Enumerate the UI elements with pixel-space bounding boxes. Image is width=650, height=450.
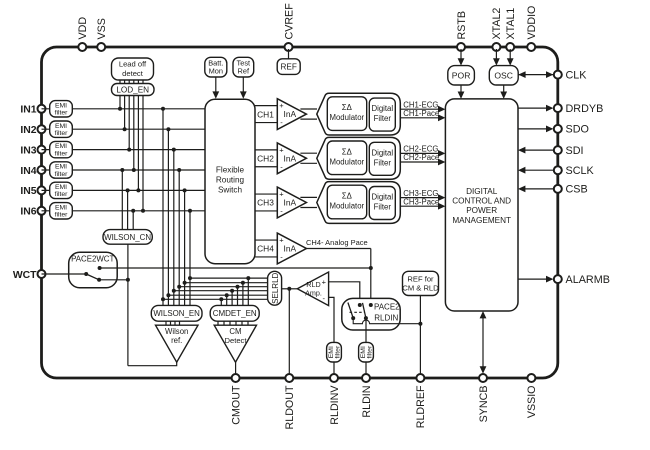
- svg-text:ΣΔ: ΣΔ: [342, 192, 352, 201]
- wire PACE2WCT upper to pace node: [100, 267, 371, 269]
- wire bus line 3: [179, 286, 267, 288]
- wire bus line 6: [163, 298, 268, 300]
- wire DRDYB: [518, 105, 553, 112]
- svg-text:VSSIO: VSSIO: [526, 386, 538, 419]
- pin VDDIO: [526, 6, 538, 51]
- svg-text:EMI: EMI: [55, 143, 67, 150]
- svg-text:CH1: CH1: [257, 109, 274, 119]
- wires lead off detect to LOD_EN: [120, 80, 143, 84]
- pin CVREF: [283, 3, 295, 51]
- wire column IN6 to WILSON_EN: [188, 209, 192, 306]
- svg-text:LOD_EN: LOD_EN: [116, 86, 149, 95]
- svg-text:Ref: Ref: [238, 66, 250, 75]
- svg-text:DIGITAL: DIGITAL: [466, 187, 498, 196]
- svg-text:ΣΔ: ΣΔ: [342, 147, 352, 156]
- EMI filter IN4: [50, 162, 73, 178]
- digital control and power management block: [445, 99, 518, 311]
- sigma-delta group CH3 outer: [317, 182, 401, 224]
- wires WILSON_EN to wilson ref: [166, 321, 180, 325]
- wire CMDET stub 2: [225, 293, 229, 305]
- digital filter CH1: [369, 98, 395, 131]
- pin RSTB: [456, 11, 468, 51]
- Test Ref block: [233, 57, 254, 77]
- svg-text:RLDREF: RLDREF: [415, 385, 427, 428]
- WILSON_EN block: [151, 305, 202, 321]
- LOD_EN block: [112, 84, 155, 96]
- pin VDD: [77, 17, 89, 51]
- svg-text:filter: filter: [55, 130, 69, 137]
- EMI filter IN5: [50, 182, 73, 198]
- CMDET_EN block: [210, 305, 259, 321]
- svg-text:Mon: Mon: [209, 66, 223, 75]
- wire XTAL2 to OSC: [493, 49, 500, 66]
- wire LOD column 5: [136, 96, 140, 193]
- svg-text:RSTB: RSTB: [456, 11, 468, 40]
- svg-text:IN3: IN3: [20, 145, 36, 156]
- svg-text:VSS: VSS: [96, 18, 108, 39]
- svg-text:Filter: Filter: [374, 158, 392, 167]
- wire CH3-Pace: [400, 197, 445, 209]
- sigma-delta group CH1 outer: [317, 93, 401, 135]
- svg-text:EMI: EMI: [55, 123, 67, 130]
- PACE2WCT block: [69, 252, 118, 287]
- svg-text:WILSON_CN: WILSON_CN: [104, 233, 151, 242]
- wire RLDOUT: [288, 289, 290, 375]
- op-amp InA CH3: [277, 187, 306, 218]
- svg-text:EMI: EMI: [55, 204, 67, 211]
- pin VSS: [96, 18, 108, 51]
- svg-text:CH3-Pace: CH3-Pace: [403, 197, 439, 206]
- EMI filter IN3: [50, 141, 73, 157]
- pin SDO: [554, 124, 589, 136]
- wires CMDET_EN to CM detect: [218, 321, 248, 325]
- svg-text:RLDIN: RLDIN: [361, 386, 373, 418]
- svg-text:CSB: CSB: [566, 184, 588, 196]
- wire IN1 row: [42, 108, 206, 110]
- svg-text:Switch: Switch: [218, 186, 243, 195]
- svg-text:SDO: SDO: [566, 124, 589, 136]
- svg-text:DRDYB: DRDYB: [566, 103, 604, 115]
- chip body outline: [42, 47, 558, 378]
- CH2 label: [257, 154, 274, 164]
- CH1 label: [257, 109, 274, 119]
- wire CH3 input/output pair: [255, 194, 317, 211]
- svg-text:Modulator: Modulator: [329, 113, 364, 122]
- wire XTAL1 to OSC: [507, 49, 514, 66]
- wire column IN5 to WILSON_EN: [183, 188, 187, 305]
- wire LOD column 3: [127, 96, 131, 152]
- svg-text:XTAL1: XTAL1: [505, 8, 517, 40]
- wire IN4 row: [42, 169, 206, 171]
- wire column IN1 to WILSON_EN: [161, 107, 165, 306]
- svg-text:PACE2WCT: PACE2WCT: [71, 255, 114, 264]
- svg-text:InA: InA: [284, 198, 297, 208]
- wire Test Ref to switch: [240, 77, 247, 99]
- wire CSB: [518, 186, 553, 193]
- svg-text:Routing: Routing: [216, 176, 245, 185]
- EMI filter IN6: [50, 203, 73, 219]
- EMI filter IN2: [50, 121, 73, 137]
- svg-text:RLDINV: RLDINV: [329, 385, 341, 425]
- WILSON_CN block: [103, 230, 152, 245]
- wire CMDET stub 4: [236, 285, 240, 306]
- svg-text:CH4: CH4: [257, 244, 274, 254]
- pin ALARMB: [554, 274, 610, 286]
- wire CH2 input/output pair: [255, 150, 317, 167]
- wire WILSON_CN output: [126, 244, 130, 366]
- svg-text:filter: filter: [55, 191, 69, 198]
- svg-text:CH3: CH3: [257, 198, 274, 208]
- pin IN1: [20, 105, 45, 116]
- wire RSTB to POR: [458, 49, 465, 66]
- svg-text:Wilson: Wilson: [165, 327, 188, 336]
- svg-text:Modulator: Modulator: [329, 157, 364, 166]
- pin IN5: [20, 186, 45, 197]
- svg-text:filter: filter: [55, 212, 69, 219]
- wire IN6 row: [42, 210, 206, 212]
- pin VSSIO: [526, 374, 538, 418]
- wire column IN3 to WILSON_EN: [172, 148, 176, 306]
- sigma-delta modulator CH3: [327, 185, 366, 219]
- pin WCT: [13, 270, 46, 281]
- svg-text:Filter: Filter: [374, 114, 392, 123]
- wire CH2-ECG: [400, 145, 445, 157]
- wire bus line 1: [190, 277, 268, 279]
- wire POR to DCPM: [458, 85, 465, 99]
- svg-text:CH1-Pace: CH1-Pace: [403, 109, 439, 118]
- pin SDI: [554, 145, 584, 157]
- svg-text:Digital: Digital: [371, 104, 393, 113]
- wire CMDET stub 5: [241, 281, 245, 306]
- svg-text:CVREF: CVREF: [283, 3, 295, 40]
- wire SDI: [518, 147, 553, 154]
- svg-text:POR: POR: [452, 71, 471, 81]
- svg-text:IN4: IN4: [20, 166, 36, 177]
- Batt Mon block: [205, 57, 227, 77]
- svg-text:IN6: IN6: [20, 207, 36, 218]
- wire column IN2 to WILSON_EN: [166, 127, 170, 305]
- wire bus line 2: [185, 282, 268, 284]
- svg-text:EMI: EMI: [55, 102, 67, 109]
- wire LOD column 1: [118, 96, 122, 111]
- wire RLD plus input: [329, 282, 362, 307]
- svg-text:CLK: CLK: [566, 69, 588, 81]
- svg-text:VDDIO: VDDIO: [526, 6, 538, 40]
- svg-text:WILSON_EN: WILSON_EN: [153, 309, 200, 318]
- svg-text:Modulator: Modulator: [329, 202, 364, 211]
- wire CH4 input/output pair: [255, 240, 371, 257]
- sigma-delta modulator CH2: [327, 141, 366, 175]
- wire CH1-ECG: [400, 100, 445, 112]
- pin XTAL2: [491, 8, 503, 51]
- wire IN3 row: [42, 149, 206, 151]
- wire CVREF to REF: [288, 49, 290, 59]
- svg-text:IN2: IN2: [20, 125, 36, 136]
- pin RLDOUT: [284, 374, 296, 429]
- svg-text:ref.: ref.: [171, 336, 182, 345]
- pin IN6: [20, 207, 45, 218]
- svg-text:SYNCB: SYNCB: [478, 386, 490, 423]
- wire RLDINV to pin: [333, 362, 335, 375]
- wire PACE2WCT lower: [99, 279, 128, 281]
- svg-text:InA: InA: [284, 244, 297, 254]
- svg-text:filter: filter: [366, 345, 373, 359]
- wire bus line 5: [168, 294, 267, 296]
- op-amp InA CH2: [277, 143, 306, 174]
- wire SCLK: [518, 167, 553, 174]
- svg-text:WCT: WCT: [13, 270, 37, 281]
- svg-text:XTAL2: XTAL2: [491, 8, 503, 40]
- pin CSB: [554, 184, 588, 196]
- wire SYNCB bidirectional: [480, 311, 487, 374]
- svg-text:Filter: Filter: [374, 203, 392, 212]
- wire IN5 row: [42, 189, 206, 191]
- svg-text:MANAGEMENT: MANAGEMENT: [452, 216, 511, 225]
- wire CH3-ECG: [400, 189, 445, 201]
- wire LOD column 2: [123, 96, 127, 132]
- wire RLD minus input: [329, 297, 334, 342]
- svg-text:Amp.: Amp.: [305, 289, 322, 298]
- wire wilson ref output: [128, 361, 177, 366]
- pin CMOUT: [230, 374, 242, 425]
- REF for CM and RLD block: [402, 271, 439, 295]
- svg-text:InA: InA: [284, 153, 297, 163]
- switch lever PACE2WCT: [86, 266, 101, 282]
- svg-text:CM: CM: [229, 327, 241, 336]
- pin IN2: [20, 125, 45, 136]
- svg-text:Digital: Digital: [371, 148, 393, 157]
- svg-text:CH4- Analog Pace: CH4- Analog Pace: [306, 238, 368, 247]
- CH3 label: [257, 198, 274, 208]
- digital filter CH3: [369, 187, 395, 220]
- svg-text:Flexible: Flexible: [216, 166, 245, 175]
- svg-text:Lead off: Lead off: [119, 60, 147, 69]
- svg-text:EMI: EMI: [55, 184, 67, 191]
- svg-text:REF for: REF for: [407, 274, 434, 283]
- wire column IN4 to WILSON_EN: [177, 168, 181, 305]
- OSC block: [489, 66, 518, 85]
- svg-text:VDD: VDD: [77, 17, 89, 40]
- flexible routing switch block: [205, 99, 255, 264]
- svg-text:SCLK: SCLK: [566, 165, 595, 177]
- svg-text:RLDOUT: RLDOUT: [284, 385, 296, 429]
- wire OSC-CLK bidirectional: [518, 71, 553, 78]
- wire CH4 analog pace: [306, 238, 373, 307]
- pin DRDYB: [554, 103, 603, 115]
- pin IN4: [20, 166, 45, 177]
- wire Batt Mon to switch: [212, 77, 219, 99]
- svg-text:CH2-Pace: CH2-Pace: [403, 153, 439, 162]
- wire RLDIN: [365, 318, 367, 342]
- svg-text:ΣΔ: ΣΔ: [342, 103, 352, 112]
- wire IN2 row: [42, 128, 206, 130]
- svg-text:OSC: OSC: [494, 71, 513, 81]
- svg-text:Detect: Detect: [225, 336, 248, 345]
- wire ALARMB: [518, 276, 553, 283]
- wire CMDET stub 3: [230, 289, 234, 306]
- svg-text:CMOUT: CMOUT: [230, 385, 242, 425]
- svg-text:IN5: IN5: [20, 186, 36, 197]
- op-amp RLD: [297, 272, 328, 306]
- svg-text:filter: filter: [55, 171, 69, 178]
- svg-text:CM & RLD: CM & RLD: [402, 284, 439, 293]
- svg-text:IN1: IN1: [20, 105, 36, 116]
- wire RLDIN to pin: [365, 362, 367, 375]
- svg-text:CMDET_EN: CMDET_EN: [213, 309, 257, 318]
- pin SCLK: [554, 165, 595, 177]
- SELRLD block: [268, 271, 282, 305]
- svg-text:CH2: CH2: [257, 154, 274, 164]
- svg-text:Digital: Digital: [371, 193, 393, 202]
- POR block: [448, 66, 475, 85]
- svg-text:ALARMB: ALARMB: [566, 274, 610, 286]
- svg-text:SDI: SDI: [566, 145, 584, 157]
- pin RLDIN: [361, 374, 373, 418]
- svg-text:REF: REF: [281, 63, 297, 72]
- switch levers PACE2 RLDIN: [348, 303, 366, 319]
- wire switch common to RLDREF node: [353, 318, 422, 326]
- svg-text:InA: InA: [284, 109, 297, 119]
- wilson ref amplifier: [156, 325, 199, 362]
- pin CLK: [554, 69, 588, 81]
- op-amp InA CH4: [277, 233, 306, 264]
- wire Wilson feed IN4: [120, 168, 124, 230]
- pin XTAL1: [505, 8, 517, 51]
- svg-text:+: +: [322, 277, 327, 286]
- digital filter CH2: [369, 142, 395, 175]
- wire bus line 4: [174, 290, 268, 292]
- wire CMDET stub 1: [219, 297, 223, 305]
- svg-text:detect: detect: [122, 69, 144, 78]
- wire SDO: [518, 126, 553, 133]
- CM detect amplifier: [214, 325, 256, 362]
- svg-text:filter: filter: [55, 110, 69, 117]
- svg-text:POWER: POWER: [466, 206, 497, 215]
- wire CH2-Pace: [400, 153, 445, 165]
- pin SYNCB: [478, 374, 490, 422]
- pin IN3: [20, 145, 45, 156]
- svg-text:SELRLD: SELRLD: [271, 272, 280, 303]
- wire RLD output: [282, 287, 298, 291]
- wire WCT: [42, 272, 89, 276]
- svg-text:filter: filter: [334, 345, 341, 359]
- pin RLDREF: [415, 374, 427, 428]
- svg-text:EMI: EMI: [55, 164, 67, 171]
- wire CM detect to CMOUT: [235, 361, 237, 375]
- REF block: [277, 59, 300, 75]
- svg-text:CONTROL AND: CONTROL AND: [452, 197, 511, 206]
- wire RLDREF: [419, 296, 421, 376]
- PACE2 RLDIN switch block: [342, 298, 400, 330]
- sigma-delta group CH2 outer: [317, 137, 401, 179]
- EMI filter RLDIN: [359, 342, 374, 362]
- EMI filter IN1: [50, 101, 73, 117]
- switch contacts PACE2 RLDIN: [351, 303, 373, 320]
- sigma-delta modulator CH1: [327, 97, 366, 131]
- svg-text:RLDIN: RLDIN: [374, 313, 398, 322]
- Lead off detect block: [112, 58, 154, 80]
- wire Wilson feed IN6: [131, 209, 135, 230]
- wire OSC to DCPM: [500, 85, 507, 99]
- wire CH1 input/output pair: [255, 106, 317, 123]
- wire LOD column 4: [132, 96, 136, 173]
- wire CH1-Pace: [400, 109, 445, 121]
- CH4 label: [257, 244, 274, 254]
- wire LOD column 6: [141, 96, 145, 213]
- svg-text:PACE2: PACE2: [374, 302, 400, 311]
- EMI filter RLDINV: [327, 342, 342, 362]
- svg-text:filter: filter: [55, 150, 69, 157]
- op-amp InA CH1: [277, 99, 306, 130]
- pin RLDINV: [329, 374, 341, 425]
- wire Wilson feed IN5: [126, 188, 130, 229]
- wire CMDET stub 6: [246, 276, 250, 305]
